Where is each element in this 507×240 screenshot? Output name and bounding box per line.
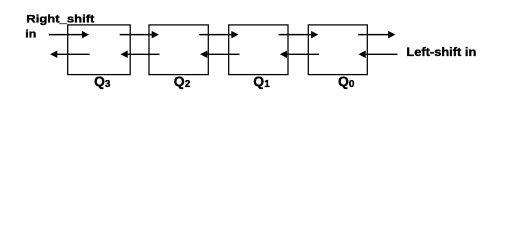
svg-text:Left-shift in: Left-shift in bbox=[406, 45, 476, 59]
svg-text:Right_shift: Right_shift bbox=[26, 14, 94, 26]
svg-text:in: in bbox=[25, 29, 36, 41]
